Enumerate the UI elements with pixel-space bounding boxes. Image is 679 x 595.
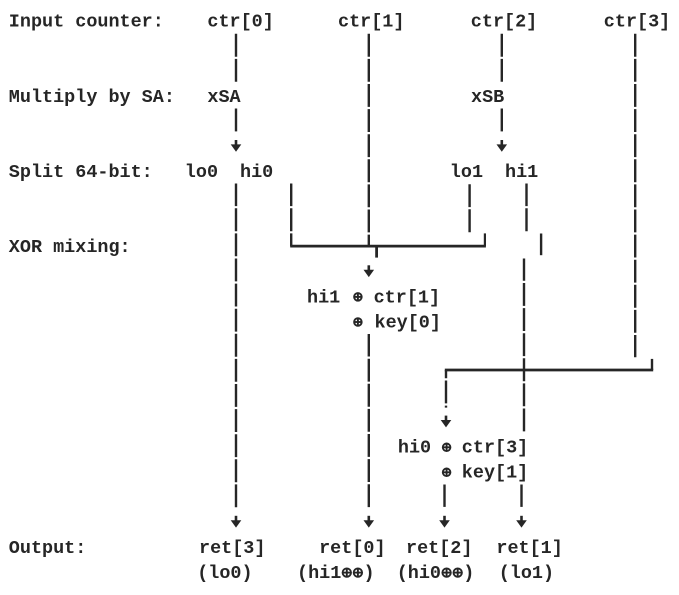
svg-text:ctr[3]: ctr[3] — [462, 438, 528, 459]
svg-text:(lo1): (lo1) — [499, 563, 554, 584]
svg-text:ctr[2]: ctr[2] — [471, 12, 537, 33]
svg-text:(hi0: (hi0 — [397, 563, 441, 584]
svg-text:ret[1]: ret[1] — [496, 538, 562, 559]
svg-text:ctr[3]: ctr[3] — [604, 12, 670, 33]
wire lo1 output down row19 — [520, 485, 522, 508]
svg-text:Split 64-bit:: Split 64-bit: — [9, 162, 153, 183]
svg-text:): ) — [463, 563, 474, 584]
svg-text:ctr[0]: ctr[0] — [207, 12, 273, 33]
wire ctr[3] long down — [634, 34, 636, 358]
svg-text:ctr[1]: ctr[1] — [338, 12, 404, 33]
wire hi1 down rows10-16 — [523, 259, 525, 434]
oplus small a1 — [343, 568, 351, 576]
svg-text:ret[3]: ret[3] — [199, 538, 265, 559]
arrow into ret[1] — [520, 516, 523, 521]
wire xSB down row4 — [501, 109, 503, 133]
arrow into ret[2] — [443, 516, 446, 521]
wire hi1 jog row9 — [540, 234, 542, 256]
xor collector 1 horizontal — [290, 245, 486, 248]
svg-text:ret[2]: ret[2] — [406, 538, 472, 559]
corner up at right end of collector 1 — [484, 233, 486, 246]
svg-text:XOR mixing:: XOR mixing: — [9, 237, 131, 258]
svg-text:lo1: lo1 — [450, 162, 483, 183]
svg-text:hi0: hi0 — [398, 438, 431, 459]
svg-text:(lo0): (lo0) — [197, 563, 252, 584]
svg-text:Output:: Output: — [9, 538, 87, 559]
stub below T junction — [375, 247, 378, 257]
oplus xor1 b — [354, 318, 362, 326]
svg-text:xSB: xSB — [471, 87, 504, 108]
svg-text:lo0: lo0 — [185, 162, 218, 183]
arrow into ret[0] — [367, 516, 370, 521]
wire lo0 long down to output — [235, 184, 237, 508]
wire xor2 result down row19 — [443, 485, 445, 508]
wire collector2 down to arrow — [445, 370, 447, 408]
xor collector 2 horizontal — [445, 369, 653, 372]
wire ctr[0] down rows1-2 — [235, 34, 237, 84]
wire ctr[1] down to xor collector — [368, 34, 370, 248]
wire xSA down row4 — [235, 109, 237, 133]
svg-text:Input counter:: Input counter: — [9, 12, 164, 33]
wire hi1 down rows7-8 — [525, 184, 527, 233]
oplus small a2 — [354, 568, 362, 576]
svg-text:hi1: hi1 — [307, 287, 340, 308]
oplus xor2 a — [443, 444, 451, 452]
arrow into hi0 xor ctr[3] — [445, 416, 448, 421]
oplus small b2 — [454, 568, 462, 576]
svg-text:xSA: xSA — [207, 87, 241, 108]
svg-text:hi1: hi1 — [505, 162, 538, 183]
svg-text:ctr[1]: ctr[1] — [374, 287, 440, 308]
arrow into split lo0/hi0 — [235, 140, 238, 145]
svg-text:(hi1: (hi1 — [297, 563, 341, 584]
oplus xor1 a — [354, 293, 362, 301]
oplus small b1 — [442, 568, 450, 576]
wire hi0 down to xor collector — [290, 184, 292, 247]
svg-text:ret[0]: ret[0] — [319, 538, 385, 559]
arrow into ret[3] — [235, 516, 238, 521]
svg-text:key[0]: key[0] — [375, 312, 441, 333]
svg-text:key[1]: key[1] — [462, 463, 528, 484]
oplus xor2 b — [443, 469, 451, 477]
arrow into split lo1/hi1 — [500, 140, 503, 145]
corner up at right end of collector 2 — [651, 359, 653, 370]
wire ctr[2] down rows1-2 — [501, 34, 503, 84]
wire xor1 result down to output — [368, 334, 370, 508]
wire lo1 down — [468, 184, 470, 232]
arrow into hi1 xor ctr[1] — [367, 265, 370, 270]
svg-text:Multiply by SA:: Multiply by SA: — [9, 87, 175, 108]
svg-text:hi0: hi0 — [240, 162, 273, 183]
svg-text:): ) — [364, 563, 375, 584]
